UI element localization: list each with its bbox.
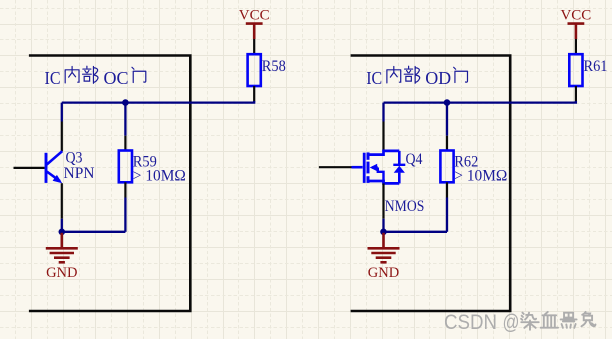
svg-text:IC: IC [366,68,382,88]
svg-text:R58: R58 [262,58,286,75]
svg-text:R61: R61 [584,58,608,75]
svg-text:OD: OD [425,68,451,88]
svg-text:Q4: Q4 [406,151,423,168]
svg-text:VCC: VCC [560,8,591,24]
svg-text:IC: IC [45,68,61,88]
svg-text:NPN: NPN [64,165,95,182]
svg-text:Q3: Q3 [66,149,83,166]
svg-text:GND: GND [368,265,399,281]
svg-text:@: @ [503,311,520,334]
svg-text:CSDN: CSDN [444,311,497,334]
svg-text:GND: GND [46,265,77,281]
svg-text:> 10MΩ: > 10MΩ [133,168,186,185]
svg-text:VCC: VCC [239,8,270,24]
svg-text:OC: OC [104,68,129,88]
svg-text:> 10MΩ: > 10MΩ [454,168,507,185]
svg-text:NMOS: NMOS [385,198,425,215]
